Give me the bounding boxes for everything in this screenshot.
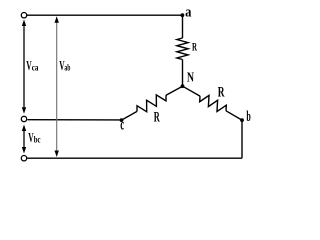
svg-text:c: c <box>120 117 124 134</box>
svg-text:b: b <box>246 109 250 125</box>
svg-text:R: R <box>192 42 197 54</box>
svg-text:bc: bc <box>34 136 41 146</box>
svg-text:R: R <box>154 109 160 125</box>
svg-text:ca: ca <box>32 63 39 73</box>
svg-text:a: a <box>185 5 192 21</box>
svg-text:N: N <box>187 70 194 85</box>
svg-text:R: R <box>218 84 225 100</box>
svg-text:ab: ab <box>64 63 70 73</box>
